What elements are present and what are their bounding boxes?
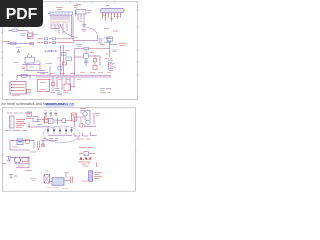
page 2 sheet border frame	[1, 108, 136, 191]
regulator loop 2 with transistor Q902	[7, 156, 33, 171]
node wires with R802 box	[20, 31, 38, 40]
red dashes above connector	[82, 164, 90, 166]
red labels above filter caps	[44, 109, 58, 111]
small parts on bus	[46, 51, 72, 70]
transformer T801	[10, 82, 30, 96]
ground stub	[82, 30, 87, 31]
vertical bus mid	[37, 45, 64, 75]
wire vertical to arc	[83, 20, 85, 28]
wires from U801	[22, 62, 45, 71]
signal wire to video jack	[73, 38, 111, 43]
rectifier wiring page2	[44, 113, 77, 125]
svg-text:S-VIDEO IN: S-VIDEO IN	[45, 50, 58, 53]
red stub wire	[78, 20, 82, 23]
IF module U801	[25, 53, 35, 63]
svg-text:www.manuals.net: www.manuals.net	[46, 102, 75, 106]
red arrow mark	[96, 163, 98, 168]
AC inlet labels bottom page2	[5, 129, 27, 131]
sub circuit below bus	[50, 77, 75, 95]
bracket symbols row page2	[74, 132, 97, 136]
PDF badge	[0, 0, 43, 27]
red dashes below bus	[48, 78, 81, 80]
mains inlet labels page2	[7, 112, 31, 114]
red text rows right page2	[78, 148, 95, 163]
connector J802 small top-right	[76, 5, 92, 20]
small red squares row3	[80, 157, 92, 159]
red label row under transistors	[77, 138, 91, 140]
blue text above	[76, 39, 112, 47]
highlight ellipse degauss	[42, 126, 80, 143]
connector CN902 page2 bottom-right	[82, 171, 102, 181]
right column parts page1	[108, 61, 113, 71]
wire ladder under P801	[51, 16, 73, 41]
red signal wire	[75, 47, 110, 50]
capacitor marks on arc wire	[82, 24, 87, 26]
connector P801 top-center	[48, 6, 78, 23]
power block bottom	[46, 173, 73, 189]
svg-text:PDF: PDF	[6, 6, 38, 23]
bus labels red	[40, 72, 111, 75]
central wire grid	[75, 49, 101, 76]
bottom-right cluster page1	[100, 89, 111, 93]
input label row 2	[37, 42, 75, 44]
purple box in rows	[84, 151, 88, 155]
transformer small bottom	[30, 171, 50, 183]
transistor Q801	[83, 53, 89, 59]
page 1 sheet border frame	[1, 1, 138, 100]
labels near U801	[13, 61, 40, 69]
red component chain x95	[93, 55, 97, 70]
connector row under ellipse	[41, 138, 58, 146]
transistor pair circuit page2 right	[75, 109, 101, 127]
regulator loop 1 page2 left	[10, 139, 40, 152]
connector pill top-right	[100, 6, 124, 31]
fuse block page2	[26, 112, 46, 127]
capacitor C803	[16, 47, 21, 52]
big curved wire right	[86, 28, 98, 41]
red text mid labels	[89, 45, 105, 53]
capacitor below Q801	[84, 61, 89, 63]
coil L801 left	[8, 25, 28, 31]
bottom bus page1	[17, 75, 111, 77]
wire loop small left	[17, 74, 30, 80]
mains filter block page2	[10, 116, 27, 128]
small parts cluster mid-left page2	[3, 163, 7, 165]
caption text with link	[2, 102, 75, 106]
capacitor C cluster bottom-left page2	[9, 175, 17, 178]
line filter caps page2	[44, 112, 57, 117]
wire with filter F801	[3, 41, 34, 44]
input label row 1	[37, 38, 75, 40]
big curved wire from pins	[60, 24, 77, 38]
IC box red outline	[38, 80, 50, 92]
C816 block right	[105, 37, 127, 70]
